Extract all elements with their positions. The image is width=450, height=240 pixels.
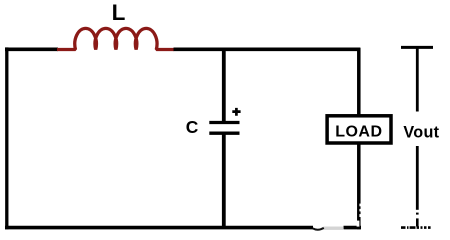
watermark white notches on LOAD wire xyxy=(359,204,362,207)
inductor L xyxy=(57,28,174,49)
capacitor C bottom lead wire xyxy=(222,133,226,228)
watermark white-out on bottom wire xyxy=(313,225,344,230)
wire LOAD to bottom xyxy=(357,143,361,229)
capacitor C top lead wire xyxy=(222,48,226,123)
plus sign polarity mark xyxy=(232,108,240,116)
Vout line broken dot xyxy=(416,213,419,215)
watermark gray band on bottom wire xyxy=(323,227,343,230)
svg-text:L: L xyxy=(112,0,126,25)
wire top-right segment xyxy=(174,48,361,52)
svg-text:C: C xyxy=(186,117,199,137)
capacitor C bottom plate xyxy=(209,132,239,135)
Vout line lower stub xyxy=(416,218,419,226)
capacitor C top plate xyxy=(209,121,239,124)
Vout top bar xyxy=(401,46,433,49)
Vout vertical line lower xyxy=(416,146,419,210)
svg-text:Vout: Vout xyxy=(403,123,439,141)
wire bottom horizontal xyxy=(5,226,361,230)
wire top-left segment xyxy=(5,48,58,52)
watermark dark arc under bottom wire xyxy=(313,228,324,230)
svg-text:LOAD: LOAD xyxy=(335,123,382,140)
Vout bottom bar dashes xyxy=(401,226,431,229)
Vout vertical line upper xyxy=(416,47,419,111)
LOAD box xyxy=(327,116,391,143)
wire top to LOAD xyxy=(357,48,361,115)
wire left vertical xyxy=(5,47,8,229)
